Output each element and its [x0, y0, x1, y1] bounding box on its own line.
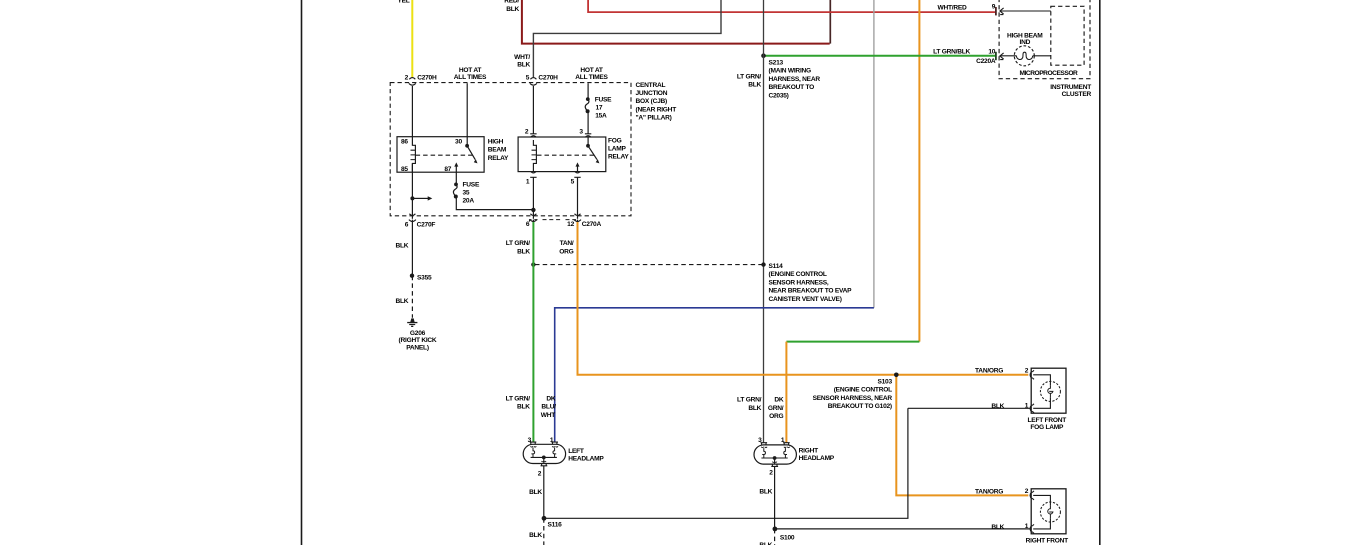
- svg-text:(NEAR RIGHT: (NEAR RIGHT: [636, 106, 677, 113]
- wire LT GRN/BLK to instrument cluster pin 10: [764, 49, 996, 56]
- wire TAN/ORG branch to right front fog lamp: [896, 375, 1028, 496]
- wire fog relay pin 5 down: [577, 177, 579, 219]
- connector 6 (C270A green): [526, 214, 537, 228]
- wire RED/BLK vertical (dark): [829, 0, 831, 44]
- svg-text:CANISTER VENT VALVE): CANISTER VENT VALVE): [769, 296, 842, 303]
- svg-text:S116: S116: [548, 522, 563, 529]
- svg-text:6: 6: [526, 221, 530, 228]
- svg-text:ORG: ORG: [769, 413, 783, 420]
- wire dashed link S114: [535, 264, 762, 266]
- svg-text:S213: S213: [769, 59, 784, 66]
- svg-text:S100: S100: [780, 535, 795, 542]
- svg-text:IND: IND: [1019, 39, 1030, 46]
- svg-text:BLK: BLK: [991, 403, 1004, 410]
- node junction on LT GRN/BLK at S114 link: [531, 262, 535, 266]
- svg-text:C220A: C220A: [976, 58, 996, 65]
- svg-text:LAMP: LAMP: [608, 145, 627, 152]
- svg-text:5: 5: [526, 74, 530, 81]
- pin 3 connector glyph: [579, 129, 591, 138]
- svg-text:FOG LAMP: FOG LAMP: [1030, 424, 1064, 431]
- labels LT GRN/BLK right headlamp: [737, 397, 762, 412]
- svg-text:RELAY: RELAY: [488, 155, 509, 162]
- pin 2 connector glyph left headlamp: [538, 461, 548, 478]
- lamp HIGH BEAM IND indicator: [1000, 32, 1051, 65]
- svg-text:ORG: ORG: [559, 248, 573, 255]
- svg-text:WHT/: WHT/: [514, 54, 530, 61]
- svg-text:TAN/ORG: TAN/ORG: [975, 367, 1003, 374]
- svg-text:BLK: BLK: [395, 298, 408, 305]
- svg-text:LEFT FRONT: LEFT FRONT: [1028, 417, 1067, 424]
- page border left: [301, 0, 303, 545]
- lamp left front fog lamp: [1028, 368, 1067, 431]
- svg-text:FOG: FOG: [608, 137, 622, 144]
- svg-text:HOT AT: HOT AT: [459, 67, 482, 74]
- right fog lamp bulb: [1033, 495, 1060, 529]
- pin 2 connector glyph left fog lamp: [1025, 368, 1034, 380]
- svg-text:BLK: BLK: [529, 532, 542, 539]
- right headlamp filaments: [761, 448, 787, 464]
- svg-text:INSTRUMENT: INSTRUMENT: [1050, 84, 1091, 91]
- high beam relay coil: [412, 145, 415, 172]
- wire BLK left fog lamp return: [908, 407, 1030, 409]
- svg-text:9: 9: [992, 4, 996, 11]
- lamp right headlamp: [754, 445, 835, 464]
- svg-text:RELAY: RELAY: [608, 154, 629, 161]
- svg-text:ALL TIMES: ALL TIMES: [575, 74, 608, 81]
- pin 3 connector glyph right headlamp: [758, 437, 767, 448]
- connector 5 C270H: [526, 74, 558, 85]
- svg-text:BLK: BLK: [748, 82, 761, 89]
- svg-text:(RIGHT KICK: (RIGHT KICK: [399, 337, 437, 344]
- wire DK GRN/ORG (orange segment from top): [918, 0, 920, 342]
- svg-text:G206: G206: [410, 330, 426, 337]
- node S355: [410, 274, 432, 282]
- pin 87 stub with arrow: [444, 162, 458, 173]
- svg-text:LT GRN/: LT GRN/: [506, 395, 531, 402]
- wire DK BLU/WHT (left headlamp pin 1): [555, 308, 874, 442]
- labels DK BLU/WHT left headlamp: [541, 395, 556, 419]
- svg-text:(ENGINE CONTROL: (ENGINE CONTROL: [769, 271, 827, 278]
- wire TAN/ORG from CJB pin 12 to fog lamps: [578, 222, 1029, 375]
- fog relay coil: [533, 140, 536, 172]
- lamp right front fog lamp: [1026, 489, 1069, 545]
- svg-text:35: 35: [463, 190, 470, 197]
- pin 3 connector glyph left headlamp: [528, 437, 537, 447]
- svg-text:BLK: BLK: [517, 404, 530, 411]
- svg-text:(ENGINE CONTROL: (ENGINE CONTROL: [834, 387, 892, 394]
- svg-text:2: 2: [1025, 368, 1029, 375]
- connector 12 C270A: [567, 214, 601, 228]
- svg-text:17: 17: [596, 105, 603, 112]
- svg-text:6: 6: [405, 221, 409, 228]
- fuse F17 (FUSE 17 15A): [585, 83, 612, 134]
- lamp left headlamp: [523, 444, 604, 463]
- pin 2 connector glyph right headlamp: [769, 462, 778, 477]
- svg-text:C270H: C270H: [538, 74, 558, 81]
- ground G206: [399, 318, 437, 351]
- pin 1 connector glyph right fog lamp: [1025, 523, 1034, 533]
- svg-text:C2035): C2035): [769, 93, 789, 100]
- pin 2 connector glyph right fog lamp: [1025, 488, 1034, 500]
- svg-text:BLK: BLK: [395, 242, 408, 249]
- wire pin 9 to microprocessor: [1000, 10, 1051, 12]
- svg-text:12: 12: [567, 221, 574, 228]
- svg-text:S114: S114: [769, 263, 784, 270]
- svg-text:RIGHT: RIGHT: [799, 448, 818, 455]
- svg-text:BLK: BLK: [759, 488, 772, 495]
- svg-text:HEADLAMP: HEADLAMP: [568, 455, 604, 462]
- svg-text:20A: 20A: [463, 198, 475, 205]
- svg-text:2: 2: [769, 470, 773, 477]
- wire coil to CJB bottom connector 6: [411, 164, 413, 219]
- labels DK GRN/ORG right headlamp: [768, 397, 784, 421]
- svg-text:HEADLAMP: HEADLAMP: [799, 455, 835, 462]
- labels LT GRN/BLK left headlamp: [506, 395, 531, 410]
- label HOT AT ALL TIMES (pin 30 feed): [454, 67, 487, 81]
- relay contact 30-87: [465, 144, 477, 163]
- fog relay contact 3-arm: [586, 137, 599, 163]
- svg-text:BREAKOUT TO: BREAKOUT TO: [769, 84, 815, 91]
- svg-text:FUSE: FUSE: [595, 96, 612, 103]
- svg-text:BOX (CJB): BOX (CJB): [636, 98, 668, 105]
- svg-text:1: 1: [1025, 402, 1029, 409]
- node S114: [761, 262, 852, 303]
- wire BLK left headlamp to S116: [529, 466, 544, 519]
- pin 1 connector glyph left fog lamp: [1025, 402, 1034, 413]
- svg-text:MICROPROCESSOR: MICROPROCESSOR: [1020, 70, 1079, 77]
- wire BLK dashed to ground: [395, 276, 412, 318]
- svg-text:15A: 15A: [595, 112, 607, 119]
- svg-text:1: 1: [550, 437, 554, 444]
- svg-text:C270A: C270A: [582, 221, 602, 228]
- wire LT GRN/BLK vertical S213 to right headlamp pin 3: [737, 0, 764, 443]
- svg-text:5: 5: [571, 179, 575, 186]
- dashed in-line connector bracket: [530, 220, 576, 222]
- relay U2 fog lamp relay box: [518, 137, 629, 172]
- svg-text:CENTRAL: CENTRAL: [636, 82, 666, 89]
- pin 5 connector glyph: [571, 171, 581, 185]
- wire LT GRN/BLK from CJB pin 6 to left headlamp pin 3: [506, 222, 534, 442]
- wire BLK dashed below S116: [529, 518, 544, 545]
- svg-text:BLK: BLK: [748, 405, 761, 412]
- svg-text:C270F: C270F: [417, 221, 436, 228]
- wire BLK dashed below S100: [759, 529, 774, 545]
- wire WHT/BLK (to CJB pin 5 C270H): [514, 0, 721, 77]
- svg-text:C270H: C270H: [417, 74, 437, 81]
- svg-text:BLK: BLK: [991, 524, 1004, 531]
- svg-text:SENSOR HARNESS, NEAR: SENSOR HARNESS, NEAR: [813, 395, 893, 402]
- svg-text:NEAR BREAKOUT TO EVAP: NEAR BREAKOUT TO EVAP: [769, 288, 853, 295]
- svg-text:DK: DK: [774, 397, 784, 404]
- relay dashed actuator line: [416, 154, 474, 156]
- svg-text:2: 2: [538, 471, 542, 478]
- svg-text:BEAM: BEAM: [488, 147, 507, 154]
- svg-text:BLK: BLK: [506, 6, 519, 13]
- pin 2 connector glyph: [525, 129, 537, 138]
- svg-text:"A" PILLAR): "A" PILLAR): [636, 115, 672, 122]
- wire fuse 35 to fog relay pin 1 wire: [456, 197, 533, 210]
- svg-text:PANEL): PANEL): [406, 344, 429, 351]
- svg-text:LT GRN/: LT GRN/: [737, 73, 762, 80]
- wire coil return stub with arrow: [410, 196, 432, 200]
- svg-text:JUNCTION: JUNCTION: [636, 90, 668, 97]
- wire fog relay pin 1 down: [532, 177, 534, 219]
- pin 1 connector glyph right headlamp: [781, 437, 790, 448]
- svg-text:3: 3: [579, 129, 583, 136]
- svg-text:LT GRN/BLK: LT GRN/BLK: [933, 49, 970, 56]
- svg-text:S355: S355: [417, 275, 432, 282]
- instrument cluster dashed boundary: [999, 0, 1091, 98]
- svg-text:85: 85: [401, 166, 408, 173]
- svg-text:LT GRN/: LT GRN/: [737, 397, 762, 404]
- svg-text:BLK: BLK: [529, 489, 542, 496]
- svg-text:(MAIN WIRING: (MAIN WIRING: [769, 68, 812, 75]
- node S213: [761, 53, 820, 99]
- node S103: [813, 373, 899, 411]
- wire BLK right headlamp to S100: [759, 466, 774, 529]
- svg-text:GRN/: GRN/: [768, 405, 784, 412]
- svg-text:87: 87: [444, 166, 451, 173]
- svg-text:2: 2: [1025, 488, 1029, 495]
- wire HOT AT ALL TIMES to pin 30: [466, 83, 468, 146]
- node S116: [542, 516, 563, 529]
- node S100: [773, 527, 795, 542]
- svg-text:HIGH: HIGH: [488, 139, 504, 146]
- left headlamp filaments: [531, 448, 557, 464]
- svg-text:DK: DK: [546, 395, 556, 402]
- fog relay dashed actuator line: [537, 154, 595, 156]
- connector pin 9 C220A: [992, 4, 1004, 16]
- svg-text:S103: S103: [877, 378, 892, 385]
- relay U1 high beam relay box: [397, 137, 509, 173]
- svg-text:1: 1: [526, 179, 530, 186]
- svg-text:BLK: BLK: [517, 248, 530, 255]
- microprocessor dashed box: [1020, 6, 1085, 77]
- wire BLK to S355: [395, 222, 412, 276]
- wire S116 ground link to fog lamp return: [544, 408, 908, 518]
- wire DK GRN/ORG (green horizontal segment): [786, 341, 919, 343]
- label HOT AT ALL TIMES (fuse 17 feed): [575, 67, 608, 81]
- svg-text:WHT: WHT: [541, 412, 555, 419]
- svg-text:2: 2: [525, 129, 529, 136]
- svg-text:FUSE: FUSE: [463, 182, 480, 189]
- left fog lamp bulb: [1033, 375, 1060, 409]
- svg-text:BLU/: BLU/: [541, 404, 556, 411]
- connector pin 10 C220A: [976, 49, 1003, 65]
- svg-text:TAN/ORG: TAN/ORG: [975, 488, 1003, 495]
- wire RED/BLK: [504, 0, 829, 44]
- wire CJB pin 2 to high beam relay coil: [411, 86, 413, 145]
- Central Junction Box dashed boundary: [390, 82, 676, 216]
- svg-text:YEL: YEL: [397, 0, 409, 5]
- svg-text:86: 86: [401, 138, 408, 145]
- svg-text:1: 1: [1025, 523, 1029, 530]
- wire DK GRN/ORG (orange drop to right headlamp pin 1): [785, 342, 787, 443]
- connector 6 C270F: [405, 214, 436, 229]
- svg-text:2: 2: [405, 74, 409, 81]
- wire S100 to right fog lamp return: [775, 528, 1030, 530]
- wire WHT (down to blue corner): [873, 0, 875, 308]
- page border right: [1099, 0, 1101, 545]
- fog relay pin 5 stub with arrow: [576, 162, 580, 171]
- wire YEL (to CJB pin 2 C270H): [397, 0, 412, 77]
- svg-text:1: 1: [781, 437, 785, 444]
- svg-text:3: 3: [758, 437, 762, 444]
- value label TAN/ORG at CJB: [559, 240, 574, 255]
- svg-text:LEFT: LEFT: [568, 448, 584, 455]
- svg-text:CLUSTER: CLUSTER: [1062, 91, 1092, 98]
- svg-text:RIGHT FRONT: RIGHT FRONT: [1026, 538, 1069, 545]
- svg-text:BREAKOUT TO G102): BREAKOUT TO G102): [828, 403, 892, 410]
- svg-text:LT GRN/: LT GRN/: [506, 240, 531, 247]
- pin 1 connector glyph left headlamp: [550, 437, 558, 447]
- svg-text:BLK: BLK: [517, 61, 530, 68]
- node junction at pin 1 wire: [531, 208, 535, 212]
- svg-text:HARNESS, NEAR: HARNESS, NEAR: [769, 76, 821, 83]
- svg-text:WHT/RED: WHT/RED: [937, 5, 967, 12]
- fuse F35 (FUSE 35 20A): [453, 172, 480, 205]
- svg-text:TAN/: TAN/: [560, 240, 574, 247]
- svg-text:3: 3: [528, 437, 532, 444]
- svg-text:30: 30: [455, 139, 462, 146]
- wire WHT/RED to instrument cluster pin 9: [588, 0, 995, 12]
- connector 2 C270H: [405, 74, 437, 85]
- svg-text:HOT AT: HOT AT: [580, 67, 603, 74]
- svg-text:10: 10: [988, 49, 995, 56]
- svg-text:SENSOR HARNESS,: SENSOR HARNESS,: [769, 279, 829, 286]
- svg-text:ALL TIMES: ALL TIMES: [454, 74, 487, 81]
- pin 1 connector glyph: [526, 171, 537, 185]
- svg-text:RED/: RED/: [504, 0, 519, 5]
- wire CJB pin 5 to fog relay pin 2: [532, 86, 534, 134]
